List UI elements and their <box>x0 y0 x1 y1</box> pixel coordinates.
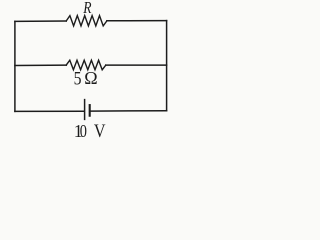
battery 10 V: short thick plate <box>89 105 91 116</box>
battery 10 V: long plate <box>84 100 86 120</box>
wire: top wire right segment <box>107 20 167 22</box>
svg-text:Ω: Ω <box>84 68 97 88</box>
wire: right vertical branch <box>166 21 168 111</box>
wire: bottom wire left segment <box>15 110 84 112</box>
resistor 5 ohm <box>66 60 106 70</box>
svg-text:5: 5 <box>74 68 82 88</box>
wire: middle wire right segment <box>106 64 167 66</box>
wire: top wire left segment <box>15 20 66 22</box>
svg-text:R: R <box>82 0 91 17</box>
wire: left vertical branch <box>14 21 16 111</box>
wire: middle wire left segment <box>15 64 66 66</box>
resistor R <box>66 16 107 26</box>
svg-text:V: V <box>94 120 106 139</box>
wire: bottom wire right segment <box>91 110 167 112</box>
svg-text:0: 0 <box>80 120 87 139</box>
